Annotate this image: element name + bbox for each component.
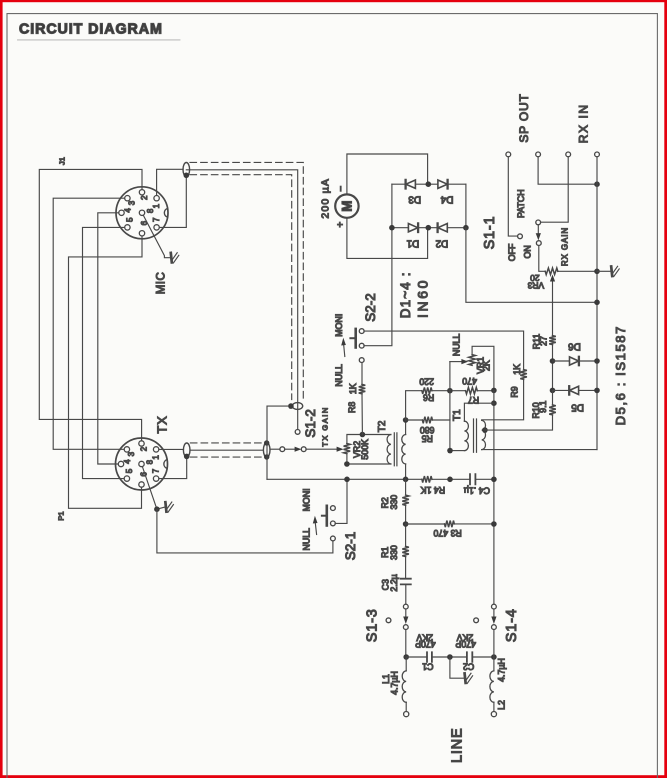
svg-text:6: 6 bbox=[140, 472, 149, 477]
switch S1-4 bottom contact bbox=[492, 625, 497, 630]
wire MIC pin3 to TX pin3 (V2) bbox=[53, 198, 127, 449]
wire node A column (VR1 wiper / R5 / T1 left bottom) bbox=[449, 362, 451, 451]
pin 5 of P1 TX bbox=[124, 476, 129, 481]
switch S2-2 middle contact bbox=[359, 343, 364, 348]
ground symbol at MIC bbox=[171, 253, 172, 263]
shield oval at S1-2 TX GAIN cable bbox=[292, 403, 302, 410]
svg-text:470P: 470P bbox=[455, 639, 476, 649]
switch S2-1 pushbar bbox=[325, 506, 328, 526]
svg-text:D5,6 : IS1587: D5,6 : IS1587 bbox=[613, 325, 628, 425]
svg-text:P1: P1 bbox=[57, 511, 66, 520]
svg-text:S2-2: S2-2 bbox=[363, 293, 378, 322]
wire T1 primary top bbox=[464, 403, 494, 421]
svg-text:D2: D2 bbox=[435, 238, 448, 249]
svg-text:3: 3 bbox=[128, 200, 137, 205]
switch S1-2 top contact bbox=[295, 430, 300, 435]
wire VR2 bottom to T2 bottom bbox=[347, 454, 391, 464]
capacitor C1 470P 2KV bbox=[427, 652, 432, 662]
svg-text:470: 470 bbox=[462, 376, 477, 386]
svg-text:R3 470: R3 470 bbox=[433, 528, 461, 538]
svg-text:CIRCUIT DIAGRAM: CIRCUIT DIAGRAM bbox=[19, 22, 163, 38]
switch S2-2 pushbar bbox=[354, 329, 357, 348]
svg-text:S1-1: S1-1 bbox=[482, 216, 498, 250]
wire terminal3 to S1-1 common bbox=[541, 157, 569, 222]
svg-text:1: 1 bbox=[152, 203, 161, 208]
wire VR1 top loop to node B bbox=[472, 346, 494, 390]
svg-text:−: − bbox=[336, 186, 347, 192]
svg-text:9.1: 9.1 bbox=[538, 400, 548, 412]
wire TX pin7 to cable shield bbox=[157, 456, 187, 478]
transformer T2 primary coil bbox=[387, 435, 391, 464]
pin 1 of P1 TX bbox=[153, 447, 158, 452]
junction dot node A bbox=[447, 388, 453, 394]
switch S1-2 wiper arrow bbox=[285, 448, 296, 450]
potentiometer VR1 wiper arrow bbox=[450, 361, 462, 363]
wire shield bus left and down to S2-1 row bbox=[267, 406, 289, 479]
terminal SP OUT a bbox=[506, 152, 511, 157]
wire T2 bottom node down bbox=[405, 479, 407, 495]
svg-text:4: 4 bbox=[123, 459, 132, 464]
pin 4 of J1 MIC bbox=[119, 210, 124, 215]
svg-text:TX: TX bbox=[155, 415, 170, 433]
svg-text:S1-3: S1-3 bbox=[364, 608, 380, 642]
terminal L2 line bbox=[491, 712, 496, 717]
svg-text:M: M bbox=[339, 200, 354, 211]
wire MIC pin2 to TX pin2 (V1) bbox=[39, 169, 142, 443]
svg-text:2: 2 bbox=[140, 446, 149, 451]
svg-text:C4 .1µ: C4 .1µ bbox=[464, 485, 490, 495]
resistor R1 330 bbox=[402, 546, 409, 556]
dashed shield run MIC cable outer bbox=[190, 162, 303, 399]
junction dot node B bbox=[491, 388, 497, 394]
pin 4 of P1 TX bbox=[118, 461, 123, 466]
pin 2 of P1 TX bbox=[139, 441, 144, 446]
diode D6 bbox=[553, 360, 570, 362]
capacitor C4 .1u bbox=[470, 474, 475, 484]
switch S1-2 left contact bbox=[280, 447, 285, 452]
svg-text:3: 3 bbox=[127, 451, 136, 456]
svg-text:1: 1 bbox=[151, 455, 160, 460]
terminal RX IN a bbox=[566, 152, 571, 157]
svg-text:7: 7 bbox=[151, 468, 160, 473]
transformer T2 secondary coil bbox=[402, 435, 406, 464]
junction dot D6 right bbox=[594, 358, 600, 364]
svg-text:R4 1K: R4 1K bbox=[421, 485, 446, 495]
pin 6 of J1 MIC bbox=[139, 231, 144, 236]
svg-text:4: 4 bbox=[123, 208, 132, 213]
svg-text:VR3: VR3 bbox=[527, 280, 544, 290]
resistor R9 1K bbox=[520, 370, 527, 380]
transformer T1 primary coil bbox=[464, 421, 468, 450]
potentiometer VR3 20 bbox=[545, 268, 558, 275]
junction dot R4/C4/T1 node bbox=[447, 477, 453, 483]
capacitor C2 470P 2KV bbox=[467, 652, 472, 662]
junction dot VR2 top / R8 bbox=[360, 432, 366, 438]
diode D1 bbox=[408, 224, 417, 232]
wire T2 secondary bottom bbox=[405, 464, 407, 479]
switch S2-1 actuator arrow bbox=[315, 522, 316, 535]
pin 7 of J1 MIC bbox=[154, 225, 159, 230]
wire S2-1 bottom contact to TX ground bbox=[157, 509, 333, 553]
resistor R8 1K bbox=[359, 384, 366, 393]
junction dot C1/C2 ground node bbox=[447, 654, 453, 660]
junction dot meter line on bus bbox=[594, 300, 600, 306]
junction dot C4 right bbox=[491, 477, 497, 483]
diode bridge top rail bbox=[392, 183, 466, 185]
wire terminal1 to S1-1 OFF contact bbox=[508, 157, 517, 236]
wire MIC pin5 to TX pin5 (V4) bbox=[83, 227, 128, 478]
junction dot shield left of S1-2 oval bbox=[288, 403, 294, 409]
diode bridge right rail bbox=[465, 184, 467, 228]
dashed shield run MIC cable inner bbox=[190, 175, 292, 400]
right bus RX IN down to T1 bbox=[596, 157, 598, 450]
svg-text:D3: D3 bbox=[408, 194, 421, 205]
potentiometer VR1 2K bbox=[469, 355, 476, 366]
switch S2-1 top contact bbox=[331, 506, 336, 511]
svg-text:6: 6 bbox=[140, 220, 149, 225]
transformer T2 core bbox=[394, 433, 397, 466]
wire meter minus to bridge top bbox=[347, 154, 428, 194]
resistor R11 27 bbox=[549, 336, 556, 345]
svg-text:ON: ON bbox=[523, 245, 533, 258]
terminal L1 line bbox=[404, 712, 409, 717]
svg-text:SP OUT: SP OUT bbox=[517, 93, 531, 142]
svg-text:S2-1: S2-1 bbox=[343, 532, 358, 561]
diode D5 bbox=[553, 389, 570, 391]
wire MIC cable conductor to S1-2 bbox=[186, 170, 297, 432]
junction dot R3 right bbox=[491, 521, 497, 527]
svg-text:T2: T2 bbox=[377, 420, 388, 432]
junction dot VR2 bottom bbox=[344, 461, 350, 467]
switch S1-4 arrow bbox=[493, 609, 495, 617]
svg-text:RX GAIN: RX GAIN bbox=[561, 227, 570, 266]
svg-text:LINE: LINE bbox=[450, 728, 466, 763]
svg-text:OFF: OFF bbox=[507, 243, 517, 261]
wire VR3 wiper column down through R11 bbox=[552, 302, 554, 335]
svg-text:2K: 2K bbox=[482, 360, 492, 371]
switch S2-2 actuator arrow bbox=[344, 344, 345, 357]
junction dot bridge top center bbox=[426, 181, 432, 187]
wire MIC pin1 to shielded cable entry bbox=[157, 169, 184, 198]
pin 7 of P1 TX bbox=[153, 476, 158, 481]
resistor R6 220 bbox=[422, 387, 432, 394]
potentiometer VR2 500K bbox=[344, 444, 351, 454]
wire TX cable conductor to S1-2 left contact bbox=[270, 448, 280, 450]
switch S2-1 middle contact bbox=[331, 521, 336, 526]
switch S2-2 bottom contact bbox=[359, 358, 364, 363]
svg-text:5: 5 bbox=[125, 217, 134, 222]
svg-text:MIC: MIC bbox=[156, 272, 168, 295]
svg-text:1K: 1K bbox=[348, 383, 358, 394]
svg-text:200 µA: 200 µA bbox=[320, 178, 332, 219]
pin 3 of J1 MIC bbox=[125, 196, 130, 201]
wire T1 tap to R10 bbox=[485, 415, 553, 430]
ground wire from TX pin8 bbox=[142, 464, 165, 509]
junction dot C2/L2 node bbox=[491, 654, 497, 660]
dashed shield run TX cable upper bbox=[190, 442, 263, 444]
svg-text:J1: J1 bbox=[58, 157, 67, 165]
svg-text:NULL: NULL bbox=[302, 528, 312, 551]
transformer T1 secondary coil bbox=[482, 420, 486, 449]
terminal SP OUT b bbox=[536, 152, 541, 157]
wire S1-1 ON to VR3 bbox=[539, 245, 545, 271]
svg-text:D1: D1 bbox=[406, 238, 419, 249]
junction dot D5 right bbox=[594, 388, 600, 394]
svg-text:1K: 1K bbox=[512, 364, 522, 375]
svg-text:T1: T1 bbox=[452, 409, 463, 421]
svg-text:IN60: IN60 bbox=[414, 278, 430, 318]
svg-text:+: + bbox=[336, 222, 347, 228]
svg-text:S1-4: S1-4 bbox=[504, 608, 520, 642]
wire MIC pin4 to TX pin4 (V5) bbox=[98, 213, 122, 464]
diode D2 bbox=[436, 223, 438, 232]
switch S1-3 side contact bbox=[386, 618, 391, 623]
wire S2-2 top contact to R9 bbox=[364, 331, 524, 370]
meter M 200uA bbox=[335, 194, 358, 217]
switch S1-3 arrow bbox=[405, 609, 407, 617]
pin 8 of P1 TX bbox=[139, 461, 144, 466]
wire long row shield bus to C4 bbox=[267, 478, 422, 480]
cable shield oval at S1-2 side bbox=[263, 443, 270, 458]
junction dot T1 secondary tap bbox=[482, 427, 488, 433]
switch S1-2 right contact bbox=[301, 447, 306, 452]
pin 1 of J1 MIC bbox=[154, 196, 159, 201]
junction dot D6 left bbox=[550, 358, 556, 364]
junction dot T1 primary top bbox=[491, 400, 497, 406]
junction dot shield at MIC oval bbox=[184, 173, 190, 179]
switch S1-3 top contact bbox=[403, 604, 408, 609]
junction dot bridge bottom left bbox=[389, 225, 395, 231]
svg-text:470P: 470P bbox=[415, 639, 436, 649]
dashed shield run TX cable lower bbox=[190, 456, 263, 458]
wire TX pin1 to shielded cable entry bbox=[157, 448, 184, 450]
title underline bbox=[18, 39, 181, 41]
switch S1-1 ON contact bbox=[536, 241, 541, 246]
svg-text:NULL: NULL bbox=[334, 364, 344, 387]
svg-text:C2: C2 bbox=[463, 662, 474, 672]
svg-text:330: 330 bbox=[389, 545, 399, 560]
svg-text:220: 220 bbox=[419, 376, 434, 386]
junction dot bridge bottom center bbox=[426, 225, 432, 231]
junction dot shield at TX oval bbox=[184, 454, 190, 460]
resistor R3 470 bbox=[406, 523, 445, 525]
wire T2 secondary top bbox=[405, 420, 407, 435]
long vertical bus node B down to S1-4 bbox=[493, 390, 495, 604]
pin 2 of J1 MIC bbox=[139, 190, 144, 195]
switch S1-1 common contact bbox=[536, 220, 541, 225]
diode D3 bbox=[404, 180, 406, 189]
resistor R2 330 bbox=[402, 495, 409, 505]
junction dot TX pin8 ground bbox=[154, 506, 160, 512]
pin 8 of J1 MIC bbox=[139, 210, 144, 215]
svg-text:2: 2 bbox=[140, 195, 149, 200]
junction dot S2-1/VR2 node bbox=[344, 477, 350, 483]
junction dot shield top bbox=[264, 440, 269, 445]
diode bridge left rail bbox=[391, 184, 393, 228]
svg-text:C1: C1 bbox=[422, 662, 433, 672]
wire R9 bottom to T1 secondary top bbox=[482, 379, 524, 419]
switch S1-4 side contact bbox=[474, 618, 479, 623]
svg-text:D4: D4 bbox=[440, 194, 453, 205]
ground symbol at TX bbox=[165, 502, 166, 512]
svg-text:8: 8 bbox=[146, 459, 155, 464]
junction dot bridge bottom right bbox=[463, 225, 469, 231]
diode D4 bbox=[438, 180, 447, 188]
junction dot D5 left bbox=[550, 388, 556, 394]
svg-text:D5: D5 bbox=[571, 402, 584, 413]
junction dot T2 secondary top node bbox=[403, 417, 409, 423]
resistor R5 680 bbox=[406, 419, 423, 421]
cable shield entry oval at TX bbox=[183, 443, 190, 457]
capacitor C3 2.2u bbox=[401, 579, 411, 585]
svg-text:500K: 500K bbox=[360, 439, 370, 460]
ground wire from MIC pin8 bbox=[142, 213, 170, 258]
wire S2-2 middle contact to diode bridge bbox=[364, 228, 392, 346]
diode bridge bottom rail bbox=[392, 227, 466, 229]
connector P1 TX keyway notch bbox=[164, 460, 167, 469]
wire VR2 top to T2 bbox=[347, 435, 391, 444]
resistor R10 9.1 bbox=[552, 390, 554, 405]
junction dot T1 primary bottom bbox=[447, 448, 453, 454]
resistor R4 1K bbox=[422, 476, 432, 483]
svg-text:NULL: NULL bbox=[452, 334, 462, 357]
switch S1-4 top contact bbox=[492, 604, 497, 609]
ground wire at C1/C2 bbox=[450, 657, 464, 678]
svg-text:D6: D6 bbox=[568, 341, 581, 352]
potentiometer VR2 wiper arrowhead bbox=[337, 447, 344, 452]
junction dot on RX bus bbox=[594, 181, 600, 187]
junction dot shield bottom bbox=[264, 454, 269, 459]
svg-text:PATCH: PATCH bbox=[516, 189, 526, 218]
switch S1-3 bottom contact bbox=[403, 625, 408, 630]
wire T1 primary bottom bbox=[450, 450, 464, 452]
junction dot R2/R3 node bbox=[403, 521, 409, 527]
pin 3 of P1 TX bbox=[124, 447, 129, 452]
inductor L1 4.7uH bbox=[405, 657, 407, 671]
svg-text:R6: R6 bbox=[423, 393, 434, 403]
switch S2-2 top contact bbox=[359, 329, 364, 334]
svg-text:RX IN: RX IN bbox=[576, 103, 590, 143]
svg-text:8: 8 bbox=[146, 208, 155, 213]
svg-text:7: 7 bbox=[152, 217, 161, 222]
wire T2 top node up to R6 bbox=[406, 391, 422, 420]
terminal RX IN b bbox=[595, 152, 600, 157]
wire meter plus to bridge bottom bbox=[347, 218, 428, 259]
switch S1-1 wiper arrow bbox=[537, 225, 539, 234]
svg-text:L2: L2 bbox=[497, 700, 507, 710]
pin 5 of J1 MIC bbox=[125, 225, 130, 230]
transformer T1 core bbox=[474, 419, 477, 452]
ground symbol at C1/C2 bbox=[465, 673, 466, 683]
junction dot VR3 right / ground bbox=[594, 269, 600, 275]
wire T1 secondary bottom to right bus bbox=[482, 449, 597, 451]
connector J1 MIC keyway notch bbox=[164, 208, 167, 217]
svg-text:TX GAIN: TX GAIN bbox=[321, 406, 330, 447]
wire S2-1 middle contact bbox=[335, 479, 347, 523]
wire R8 to VR2 top junction bbox=[361, 394, 363, 435]
wire S1-2 right contact to VR2 wiper bbox=[306, 448, 337, 450]
switch S2-1 bottom contact bbox=[331, 536, 336, 541]
svg-text:MONI: MONI bbox=[334, 314, 344, 337]
connector P1 TX outer shell bbox=[116, 438, 168, 490]
inductor L2 4.7uH bbox=[493, 657, 495, 671]
wire R6 to node A bbox=[432, 390, 450, 392]
svg-text:S1-2: S1-2 bbox=[303, 409, 318, 438]
wire MIC pin7 to cable shield bbox=[157, 175, 187, 227]
junction dot L1/C1 node bbox=[403, 654, 409, 660]
switch S1-1 OFF contact bbox=[518, 234, 523, 239]
wire TX cable conductor bbox=[190, 449, 263, 451]
pin 6 of P1 TX bbox=[139, 482, 144, 487]
wire bridge output to right bus bbox=[466, 228, 597, 303]
connector J1 MIC outer shell bbox=[116, 187, 168, 239]
svg-text:2.2µ: 2.2µ bbox=[389, 574, 399, 591]
cable shield entry oval at MIC bbox=[183, 163, 190, 177]
wire R8 to S2-2 bottom contact bbox=[361, 362, 363, 384]
junction dot T2 bottom node bbox=[403, 477, 409, 483]
svg-text:27: 27 bbox=[539, 336, 549, 346]
svg-text:5: 5 bbox=[125, 468, 134, 473]
ground symbol at VR3 bbox=[597, 270, 610, 272]
svg-text:R5: R5 bbox=[421, 434, 432, 444]
svg-text:4.7µH: 4.7µH bbox=[390, 671, 400, 695]
resistor R7 470 bbox=[453, 390, 466, 392]
svg-text:MONI: MONI bbox=[302, 488, 312, 511]
svg-text:R8: R8 bbox=[347, 402, 357, 413]
svg-text:R9: R9 bbox=[510, 386, 520, 397]
svg-text:4.7µH: 4.7µH bbox=[497, 658, 507, 682]
VR3 wiper arrow from meter line bbox=[552, 281, 554, 302]
red page frame bbox=[0, 0, 3, 778]
wire terminal2 to right bus bbox=[538, 157, 597, 184]
svg-text:330: 330 bbox=[389, 495, 399, 510]
svg-text:D1~4 :: D1~4 : bbox=[398, 271, 413, 318]
wire MIC pin6 to TX pin6 (V3) bbox=[69, 233, 143, 508]
